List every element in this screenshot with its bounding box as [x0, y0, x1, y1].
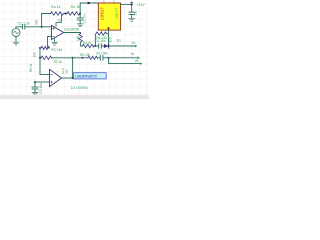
svg-text:Vb: Vb — [135, 59, 139, 63]
svg-text:1k0: 1k0 — [76, 36, 80, 41]
bottom window band — [0, 95, 149, 99]
node junction at riser — [41, 26, 43, 28]
svg-text:Rb 1k: Rb 1k — [29, 63, 33, 72]
highlighted part label box — [74, 73, 107, 79]
vertical node wire — [39, 48, 41, 75]
svg-text:2k2: 2k2 — [35, 20, 39, 25]
svg-text:1/2 LM2904: 1/2 LM2904 — [71, 86, 89, 90]
resistor Ra — [51, 12, 64, 15]
voltage source V1 — [12, 29, 20, 37]
capacitor C6 — [100, 56, 103, 60]
svg-text:10u: 10u — [134, 10, 138, 15]
svg-text:+12V: +12V — [137, 3, 146, 7]
wire R2 to feedback node — [52, 57, 73, 59]
wire V1 bottom — [15, 37, 17, 42]
U2 +in wire — [35, 81, 49, 83]
pin marker bottom (ADJ) — [108, 27, 110, 30]
U2 output wire — [62, 77, 74, 79]
svg-text:C6 100n: C6 100n — [96, 52, 108, 56]
top rail wire — [42, 13, 81, 15]
wire C6 to right — [103, 57, 138, 59]
wire to C4 — [95, 45, 98, 47]
svg-text:LM2904WDT2: LM2904WDT2 — [75, 75, 97, 79]
ground (V1) — [13, 42, 19, 45]
wire riser from top rail — [41, 14, 43, 27]
svg-text:2k2: 2k2 — [64, 69, 68, 74]
junction node C1 — [79, 13, 81, 15]
node +12V terminal — [131, 3, 133, 5]
op-amp U2 — [50, 69, 62, 86]
net port end line1 — [138, 56, 140, 59]
capacitor C2 — [23, 25, 25, 29]
net port Vo — [135, 45, 137, 48]
junction node output — [72, 77, 74, 79]
junction C3 — [34, 81, 36, 83]
ground (C3) — [32, 93, 38, 94]
ADJ pin wire down — [108, 30, 110, 34]
resistor Ro — [67, 12, 80, 15]
wire C2 to op-amp U1 +in — [25, 26, 52, 28]
regulator U3 body (yellow box) — [98, 3, 120, 30]
wire R3 down to line — [81, 42, 83, 46]
junction R5 bottom — [108, 57, 110, 59]
wire V1 top to C2 — [16, 27, 22, 29]
svg-text:2k2: 2k2 — [32, 52, 36, 57]
svg-text:1/2LM358: 1/2LM358 — [64, 27, 79, 31]
ground (U1) — [52, 42, 58, 45]
svg-text:R4 1k: R4 1k — [83, 41, 92, 45]
resistor Ra2 (ADJ to left) — [95, 32, 106, 35]
wire drop to lower net — [109, 58, 140, 64]
wire ADJ down (R5) — [108, 34, 110, 46]
svg-text:LM317: LM317 — [100, 7, 105, 20]
wire D1 to Vo — [110, 45, 136, 47]
resistor R4 (horizontal) — [82, 44, 93, 47]
svg-text:C3 10n: C3 10n — [39, 83, 43, 94]
background — [0, 0, 149, 100]
wire C4 to D1 — [101, 45, 104, 47]
svg-text:R2 1k: R2 1k — [54, 60, 63, 64]
U1 output wire — [64, 32, 81, 35]
ground (C5) — [129, 18, 135, 21]
net port end line2 — [140, 62, 142, 65]
junction node — [94, 45, 96, 47]
resistor R6 — [88, 56, 98, 59]
junction node — [82, 57, 84, 59]
wire rail up to regulator input — [80, 3, 98, 14]
feedback riser — [72, 58, 74, 78]
wire ADJ-left down to output line — [94, 35, 96, 46]
svg-text:Ro 1k: Ro 1k — [71, 5, 81, 9]
capacitor C1 to ground — [79, 14, 81, 18]
capacitor C4 — [99, 44, 102, 48]
junction node R2 — [39, 57, 41, 59]
junction with R5 — [108, 45, 110, 47]
junction node — [65, 13, 67, 15]
svg-text:C2 2.2n: C2 2.2n — [18, 21, 31, 25]
svg-text:RC 1k0: RC 1k0 — [51, 48, 62, 52]
svg-text:C1 10n: C1 10n — [82, 13, 86, 23]
op-amp U1 — [52, 25, 64, 39]
svg-text:R6 10k: R6 10k — [80, 53, 91, 57]
U2 -in wire — [40, 74, 49, 76]
resistor R2 — [41, 56, 52, 59]
svg-text:D1: D1 — [117, 39, 121, 43]
svg-text:LM317T: LM317T — [115, 7, 119, 18]
svg-text:Vo: Vo — [132, 41, 136, 45]
wire to C6 — [98, 57, 100, 59]
svg-text:Ra 1k: Ra 1k — [51, 5, 61, 9]
svg-text:Vo: Vo — [131, 52, 135, 56]
pin pad — [88, 2, 90, 4]
capacitor C5 — [131, 4, 133, 12]
svg-text:1k0: 1k0 — [108, 37, 112, 42]
wire right along bottom line — [73, 57, 88, 59]
U1 V- stub to ground — [54, 38, 56, 42]
resistor R3 (vertical, on output) — [79, 33, 82, 42]
resistor Rc — [41, 46, 49, 49]
diode D1 — [104, 44, 109, 48]
U1 V+ stub — [56, 15, 62, 27]
U1 -in wire — [48, 37, 52, 46]
ground (C1) — [77, 24, 83, 27]
junction node feedback — [72, 57, 74, 59]
svg-text:C4 10n: C4 10n — [95, 39, 106, 43]
wire regulator out to +12V node — [121, 3, 132, 5]
capacitor C3 — [34, 82, 36, 87]
node line (feedback) — [39, 47, 41, 49]
